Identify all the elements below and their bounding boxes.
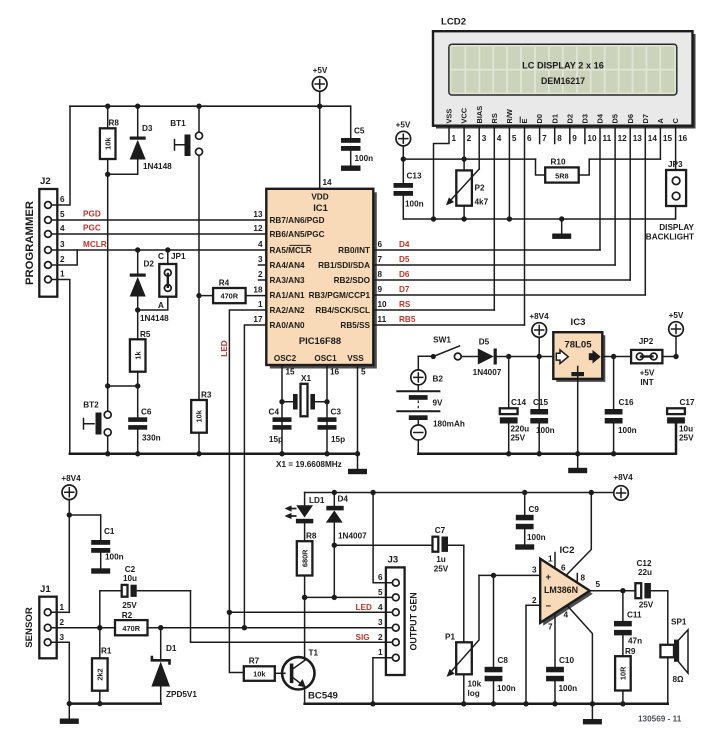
+8V4 supply symbol sensor	[61, 474, 81, 500]
svg-text:R10: R10	[550, 158, 565, 167]
svg-text:D2: D2	[144, 260, 155, 269]
resistor R9 10R	[615, 647, 636, 704]
svg-text:BACKLIGHT: BACKLIGHT	[646, 233, 694, 242]
svg-text:LED: LED	[356, 603, 372, 612]
svg-text:25V: 25V	[679, 434, 694, 443]
wire +8V4 audio rail	[305, 492, 614, 494]
+8V4 supply symbol audio right	[613, 473, 633, 500]
svg-text:PGD: PGD	[83, 210, 101, 219]
wire IC1.1 RA2 to LED vertical	[229, 310, 266, 673]
pin stub IC1.3	[259, 264, 267, 266]
svg-text:3: 3	[532, 566, 537, 575]
svg-text:1: 1	[258, 300, 263, 309]
svg-text:R2: R2	[122, 611, 133, 620]
wire D5 net IC1.7 to LCD.12	[373, 264, 615, 266]
wire LCD pin11 D4 down	[599, 126, 601, 250]
svg-text:10k: 10k	[468, 680, 482, 689]
node D4/C7	[332, 543, 337, 548]
svg-text:2: 2	[258, 270, 263, 279]
svg-text:C2: C2	[125, 565, 136, 574]
svg-text:25V: 25V	[511, 434, 526, 443]
wire D6 net IC1.8 to LCD.13	[373, 279, 630, 281]
node OSC1/X1	[324, 399, 329, 404]
ground symbol LCD	[552, 219, 571, 239]
node +5V / C17	[673, 354, 678, 359]
svg-text:D4: D4	[399, 240, 410, 249]
svg-text:11: 11	[378, 315, 387, 324]
pin stub LCD pin8 D1	[554, 126, 556, 144]
svg-text:100n: 100n	[618, 426, 637, 435]
node gnd rail P1	[461, 701, 466, 706]
wire VDD pin14	[319, 106, 321, 189]
node +8V4/C1	[67, 512, 72, 517]
svg-text:100n: 100n	[559, 684, 578, 693]
capacitor C11 47n	[614, 591, 642, 657]
svg-text:2: 2	[532, 596, 537, 605]
svg-text:C16: C16	[619, 398, 634, 407]
svg-text:PGC: PGC	[83, 224, 101, 233]
svg-text:C4: C4	[269, 408, 280, 417]
node gnd stub	[559, 216, 564, 221]
node +5V/rail	[401, 156, 406, 161]
diode D2 1N4148	[130, 250, 169, 339]
svg-text:1N4148: 1N4148	[140, 314, 169, 323]
node R4/BT1 line	[196, 293, 201, 298]
svg-text:R8: R8	[109, 119, 120, 128]
wire J1.1 to +8V4 column	[57, 611, 70, 613]
svg-text:C5: C5	[354, 127, 365, 136]
wire OSC2 down	[281, 365, 283, 454]
svg-text:10k: 10k	[253, 670, 266, 679]
capacitor C6 330n	[128, 408, 160, 454]
wire LCD pin1 VSS jog to gnd	[434, 126, 450, 219]
connector J3 OUTPUT GEN	[378, 555, 419, 676]
node rail VSS	[355, 451, 360, 456]
svg-text:RA2/AN2: RA2/AN2	[270, 306, 305, 315]
svg-text:D3: D3	[142, 124, 153, 133]
svg-text:T1: T1	[309, 649, 319, 658]
capacitor C17 10u 25V	[667, 398, 695, 454]
node pin5 R6	[302, 595, 307, 600]
svg-text:3: 3	[60, 240, 65, 249]
svg-text:13: 13	[633, 134, 643, 143]
capacitor C13 100n	[394, 172, 424, 220]
node gnd rail R9	[620, 701, 625, 706]
node rail VDD	[317, 104, 322, 109]
svg-text:3: 3	[60, 633, 65, 642]
svg-text:RB4/SCK/SCL: RB4/SCK/SCL	[315, 306, 370, 315]
svg-text:LD1: LD1	[309, 496, 325, 505]
node D5 out / C14	[506, 354, 511, 359]
svg-text:4: 4	[564, 611, 569, 620]
svg-text:1: 1	[548, 555, 553, 564]
+8V4 supply symbol power	[529, 312, 549, 357]
node pin5 D4	[332, 595, 337, 600]
pin labels LCD rotated	[445, 106, 681, 124]
svg-text:SW1: SW1	[433, 336, 451, 345]
svg-text:DISPLAY: DISPLAY	[659, 223, 694, 232]
node gnd rail IC2.2	[523, 701, 528, 706]
jumper JP3	[666, 160, 686, 206]
svg-text:X1: X1	[301, 374, 311, 383]
regulator IC3 78L05 shadow	[556, 335, 605, 382]
svg-text:SIG: SIG	[356, 633, 370, 642]
node rail C15	[537, 451, 542, 456]
node +8V4 / C15	[537, 354, 542, 359]
capacitor C15 100n	[530, 357, 554, 454]
node sensor line / D1	[158, 625, 163, 630]
wire IC3 gnd to rail	[577, 374, 579, 454]
svg-text:P1: P1	[445, 633, 455, 642]
capacitor C1 100n	[91, 515, 123, 574]
transistor T1 BC549	[282, 597, 338, 703]
svg-text:D5: D5	[611, 114, 620, 123]
svg-text:1u: 1u	[436, 555, 446, 564]
wire VSS down	[357, 365, 359, 454]
svg-text:+8V4: +8V4	[529, 312, 549, 321]
svg-text:C15: C15	[533, 398, 548, 407]
node wiper / C8	[491, 573, 496, 578]
svg-text:D2: D2	[565, 114, 574, 123]
connector J2 PROGRAMMER	[24, 176, 65, 297]
svg-text:RA4/AN4: RA4/AN4	[270, 261, 305, 270]
svg-text:DEM16217: DEM16217	[541, 76, 585, 86]
svg-text:C8: C8	[498, 656, 509, 665]
wire J2 pin2 jog up to MCLR line	[57, 250, 77, 265]
ground symbol audio	[583, 704, 602, 725]
wire LCD pin2 VCC down to +5V rail	[463, 126, 465, 159]
svg-text:C11: C11	[627, 611, 642, 620]
capacitor C5 100n	[341, 106, 373, 171]
svg-text:log: log	[468, 689, 480, 698]
ground symbol sensor	[60, 704, 79, 724]
svg-text:RB0/INT: RB0/INT	[338, 246, 370, 255]
resistor R8 10k	[100, 106, 120, 386]
+5V supply symbol top center	[312, 66, 328, 91]
svg-text:17: 17	[253, 315, 263, 324]
diode D5 1N4007	[461, 338, 553, 378]
svg-text:470R: 470R	[220, 292, 238, 301]
svg-text:100n: 100n	[527, 533, 546, 542]
wire LCD pin14 D7 down	[644, 126, 646, 295]
pin numbers IC1 right	[378, 240, 388, 324]
svg-text:15p: 15p	[331, 435, 345, 444]
capacitor C4 15p	[269, 408, 292, 445]
svg-text:2: 2	[467, 134, 472, 143]
svg-text:R7: R7	[249, 657, 260, 666]
svg-text:6: 6	[60, 195, 65, 204]
svg-text:C3: C3	[331, 408, 342, 417]
svg-text:100n: 100n	[405, 200, 424, 209]
op-amp IC2 LM386N	[540, 545, 590, 623]
wire LCD pin5 RW down to gnd	[508, 126, 510, 219]
svg-text:11: 11	[603, 134, 612, 143]
svg-text:25V: 25V	[122, 601, 137, 610]
node mini rail gnd stub	[67, 701, 72, 706]
svg-text:18: 18	[253, 286, 263, 295]
svg-text:+: +	[546, 572, 552, 583]
svg-text:C: C	[671, 118, 680, 124]
wire +5V rail top	[70, 91, 351, 106]
node gnd rail J3.1	[370, 701, 375, 706]
svg-text:9: 9	[572, 134, 577, 143]
svg-text:B2: B2	[433, 375, 444, 384]
wire J3.1 down to gnd rail	[373, 658, 386, 704]
svg-text:R8: R8	[306, 532, 317, 541]
svg-text:1N4148: 1N4148	[143, 162, 172, 171]
node gnd rail C10	[552, 701, 557, 706]
jumper JP2	[631, 337, 662, 387]
svg-text:+5V: +5V	[396, 121, 411, 130]
svg-text:RA5/MCLR: RA5/MCLR	[270, 246, 312, 255]
svg-text:C14: C14	[511, 398, 526, 407]
wire IC2 pin7 to C10	[548, 613, 555, 667]
svg-text:JP3: JP3	[668, 160, 683, 169]
svg-text:15: 15	[663, 134, 673, 143]
svg-text:4: 4	[378, 603, 383, 612]
svg-text:VDD: VDD	[311, 193, 328, 202]
wire JP2 to +5V column	[662, 356, 676, 358]
svg-text:4: 4	[497, 134, 502, 143]
wire ground rail B (power section)	[418, 423, 676, 453]
svg-text:J2: J2	[40, 176, 51, 187]
wire IC3 out to JP2	[602, 356, 631, 358]
svg-text:5: 5	[361, 368, 366, 377]
svg-text:330n: 330n	[142, 434, 161, 443]
svg-text:A: A	[158, 301, 164, 310]
svg-text:5: 5	[60, 210, 65, 219]
svg-text:8: 8	[581, 574, 586, 583]
+5V supply symbol LCD left	[396, 121, 411, 146]
svg-text:2: 2	[60, 255, 65, 264]
wire J1.2 sensor line to R2	[57, 627, 115, 629]
svg-text:X1 = 19.6608MHz: X1 = 19.6608MHz	[276, 460, 342, 469]
wire IC2 pin2 input to gnd	[526, 596, 540, 704]
svg-text:100n: 100n	[536, 426, 555, 435]
node rail BT1	[196, 104, 201, 109]
svg-text:C10: C10	[559, 656, 574, 665]
svg-text:BIAS: BIAS	[475, 106, 484, 124]
svg-text:D5: D5	[479, 338, 490, 347]
display LCD2 box	[433, 17, 693, 126]
ic IC1 PIC16F88 body	[266, 189, 373, 365]
wire D7 net IC1.9 to LCD.14	[373, 294, 645, 296]
svg-text:D4: D4	[338, 495, 349, 504]
svg-text:220u: 220u	[511, 425, 530, 434]
pushbutton BT2	[83, 386, 111, 454]
svg-text:6: 6	[378, 573, 383, 582]
svg-text:100n: 100n	[105, 553, 124, 562]
wire sensor ground mini rail	[69, 702, 160, 705]
node R8/D3 bottom junction	[105, 172, 110, 177]
wire P1 wiper to IC2.3	[479, 574, 540, 576]
svg-text:1N4007: 1N4007	[473, 368, 502, 377]
svg-text:RB6/AN5/PGC: RB6/AN5/PGC	[270, 230, 325, 239]
svg-text:6: 6	[378, 240, 383, 249]
wire LCD pin3 BIAS down to P2 wiper	[478, 126, 480, 169]
capacitor C14 220u 25V	[500, 357, 529, 454]
svg-text:22u: 22u	[638, 568, 652, 577]
svg-text:12: 12	[253, 224, 263, 233]
wire D4 net IC1.6 to LCD.11	[373, 249, 600, 251]
svg-text:1k: 1k	[133, 351, 142, 360]
svg-text:LED: LED	[220, 340, 229, 356]
node audio rail J3.6	[370, 490, 375, 495]
wire PGD J2.5 to IC1.13	[57, 219, 266, 221]
wire +8V4 down to J1 pin1	[69, 500, 100, 613]
svg-text:15: 15	[286, 368, 296, 377]
wire J2 pin6 to rail	[57, 106, 70, 205]
svg-text:10u: 10u	[123, 574, 137, 583]
svg-text:R1: R1	[101, 647, 112, 656]
svg-text:RB1/SDI/SDA: RB1/SDI/SDA	[318, 261, 370, 270]
node rail C4	[279, 451, 284, 456]
pin stub LCD pin9 D2	[569, 126, 571, 144]
svg-text:+8V4: +8V4	[61, 474, 81, 483]
node T1 collector / pin5 line	[302, 595, 307, 600]
zener diode D1 ZPD5V1	[69, 628, 197, 704]
node rail C14	[506, 451, 511, 456]
capacitor C8 100n	[485, 575, 516, 703]
wire RS net IC1.10 to LCD.4	[373, 309, 494, 311]
wire LED net to J3.4	[229, 611, 386, 613]
op-amp IC2 LM386N shadow	[543, 562, 593, 626]
svg-text:R9: R9	[625, 647, 636, 656]
svg-text:SENSOR: SENSOR	[24, 607, 35, 648]
svg-text:C6: C6	[141, 408, 152, 417]
pin 1 stub IC2	[548, 553, 555, 569]
pin 8 stub IC2	[577, 574, 585, 583]
svg-text:OSC1: OSC1	[314, 354, 337, 363]
node rail BT2	[105, 451, 110, 456]
svg-text:RB7/AN6/PGD: RB7/AN6/PGD	[270, 216, 325, 225]
pin numbers IC1 left	[253, 210, 263, 324]
node D2/JP1/R5 junction	[135, 307, 140, 312]
svg-text:C17: C17	[680, 398, 695, 407]
svg-text:IC1: IC1	[313, 202, 328, 213]
svg-text:25V: 25V	[639, 601, 654, 610]
svg-text:R/W: R/W	[505, 109, 514, 123]
node VCC/rail	[461, 156, 466, 161]
svg-text:MCLR: MCLR	[83, 240, 107, 249]
svg-text:470R: 470R	[122, 624, 140, 633]
node rail D3	[135, 104, 140, 109]
capacitor C12 22u 25V	[635, 559, 667, 610]
svg-text:C7: C7	[435, 526, 446, 535]
svg-text:8Ω: 8Ω	[673, 675, 685, 684]
LED LD1	[285, 493, 325, 542]
svg-text:RS: RS	[399, 300, 411, 309]
svg-text:10R: 10R	[619, 666, 628, 680]
svg-text:7: 7	[542, 134, 547, 143]
svg-text:8: 8	[557, 134, 562, 143]
wire IC2 pin6 diagonal to rail	[561, 493, 591, 576]
node sensor line / IC1.17 branch	[242, 625, 247, 630]
svg-text:78L05: 78L05	[564, 340, 592, 351]
svg-text:C12: C12	[636, 559, 651, 568]
svg-text:ZPD5V1: ZPD5V1	[166, 690, 197, 699]
svg-text:14: 14	[648, 134, 658, 143]
ground symbol below VSS	[348, 454, 367, 474]
svg-text:PIC16F88: PIC16F88	[299, 335, 341, 346]
svg-text:25V: 25V	[434, 565, 449, 574]
svg-text:+5V: +5V	[669, 311, 684, 320]
node output / C11	[620, 588, 625, 593]
svg-text:10: 10	[587, 134, 597, 143]
pin numbers IC1 bottom	[286, 368, 367, 377]
switch SW1	[418, 336, 461, 360]
node mini rail R1	[97, 701, 102, 706]
svg-text:+5V: +5V	[313, 66, 328, 75]
svg-text:RB5/SS: RB5/SS	[340, 321, 370, 330]
svg-text:4: 4	[60, 224, 65, 233]
label DISPLAY BACKLIGHT	[646, 223, 695, 242]
node MCLR/JP1	[165, 247, 170, 252]
node gnd pin5	[507, 216, 512, 221]
capacitor C2 10u 25V	[100, 565, 191, 628]
svg-text:2: 2	[60, 618, 65, 627]
+5V supply symbol right	[669, 311, 684, 357]
resistor R10 5R8	[536, 158, 661, 183]
wire LCD pin6 E down	[524, 126, 526, 325]
node sensor/C2/R1	[97, 625, 102, 630]
svg-text:100n: 100n	[497, 684, 516, 693]
wire OSC1 down	[326, 365, 328, 454]
svg-text:10k: 10k	[104, 137, 113, 150]
svg-text:1N4007: 1N4007	[338, 532, 367, 541]
svg-text:P2: P2	[475, 184, 485, 193]
wire audio ground rail	[305, 703, 668, 706]
svg-text:A: A	[656, 118, 665, 124]
wire E net IC1.11 to LCD.6	[373, 324, 524, 326]
svg-text:9: 9	[378, 285, 383, 294]
wire J2 pin1 down to ground rail	[57, 280, 70, 454]
svg-text:E: E	[520, 119, 529, 124]
wire J1.3 down to gnd	[57, 642, 70, 703]
svg-text:IC3: IC3	[571, 317, 586, 328]
svg-text:R5: R5	[140, 330, 151, 339]
svg-text:BC549: BC549	[308, 691, 338, 702]
svg-text:14: 14	[323, 178, 333, 187]
svg-text:8: 8	[378, 270, 383, 279]
svg-text:9V: 9V	[433, 399, 444, 408]
svg-text:5R8: 5R8	[555, 172, 569, 181]
capacitor C3 15p	[318, 408, 346, 445]
svg-text:C: C	[158, 252, 164, 261]
wire LCD pin4 RS down	[493, 126, 495, 310]
resistor R5 1k	[130, 330, 151, 417]
wire LCD pin13 D6 down	[629, 126, 631, 280]
node rail R8	[105, 104, 110, 109]
wire IC1.17 RA0 to SIG net vertical	[244, 325, 266, 628]
svg-text:D4: D4	[596, 113, 605, 123]
svg-text:3: 3	[258, 255, 263, 264]
pin stub LCD pin7 D0	[539, 126, 541, 144]
svg-text:RB2/SDO: RB2/SDO	[334, 276, 371, 285]
svg-text:D1: D1	[550, 114, 559, 123]
capacitor C10 100n	[546, 656, 577, 704]
connector J1 SENSOR	[24, 584, 65, 658]
node MCLR/D2	[135, 247, 140, 252]
svg-text:16: 16	[678, 134, 688, 143]
pushbutton BT1	[170, 106, 202, 295]
node left junction y386	[105, 383, 110, 388]
svg-text:JP2: JP2	[639, 337, 654, 346]
svg-text:C13: C13	[407, 172, 422, 181]
node gnd rail C8	[491, 701, 496, 706]
node audio rail IC2.6	[589, 490, 594, 495]
node gnd pin1	[431, 216, 436, 221]
